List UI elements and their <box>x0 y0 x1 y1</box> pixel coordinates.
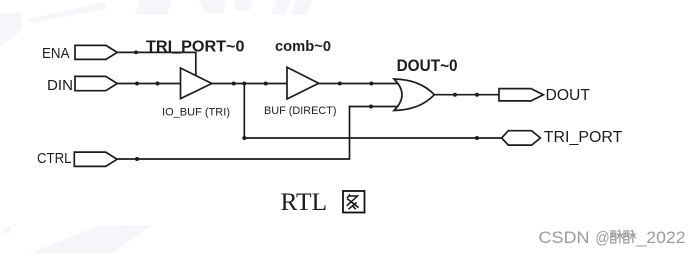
junction dot OR lower input <box>369 105 373 109</box>
input port ENA <box>75 45 117 59</box>
wire BUF output to OR <box>319 83 398 85</box>
svg-text:CSDN: CSDN <box>539 229 590 247</box>
svg-text:TRI_PORT~0: TRI_PORT~0 <box>146 39 245 56</box>
junction dot IO_BUF out 1 <box>232 82 236 86</box>
svg-text:comb~0: comb~0 <box>275 38 331 55</box>
wire IO_BUF output <box>212 83 288 85</box>
caption CJK glyph tu (picture) <box>343 191 365 213</box>
junction dot DIN wire 2 <box>156 82 160 86</box>
watermark band bottom-left <box>30 225 153 253</box>
wire DIN to IO_BUF <box>117 83 181 85</box>
junction dot CTRL wire <box>135 157 139 161</box>
watermark fragment 4 top slashes <box>271 0 291 15</box>
junction dot ENA wire <box>134 51 138 55</box>
buffer BUF triangle <box>287 67 319 99</box>
svg-text:_2022: _2022 <box>635 229 685 247</box>
wire OR lower input <box>350 106 399 108</box>
watermark glyph su 2 <box>623 230 636 243</box>
watermark fragment 1 top <box>135 0 172 15</box>
junction dot IO_BUF out at vertical <box>242 82 246 86</box>
junction dot BUF out 1 <box>338 82 342 86</box>
junction dot OR out 2 <box>475 93 479 97</box>
svg-text:TRI_PORT: TRI_PORT <box>544 129 623 146</box>
wire vertical drop to TRI_PORT net <box>243 84 245 139</box>
wire TRI_PORT net horizontal <box>244 137 501 139</box>
svg-text:CTRL: CTRL <box>37 150 72 167</box>
junction dot BUF out 2 <box>369 82 373 86</box>
input port CTRL <box>74 152 117 166</box>
svg-text:IO_BUF (TRI): IO_BUF (TRI) <box>162 106 230 118</box>
input port DIN <box>75 76 117 90</box>
svg-text:ENA: ENA <box>42 45 70 62</box>
watermark wedge top-left <box>28 2 107 23</box>
wire OR output to DOUT <box>434 94 499 96</box>
or-gate DOUT~0 <box>394 79 434 111</box>
svg-text:DOUT~0: DOUT~0 <box>397 57 458 75</box>
junction dot corner TRI_PORT net <box>242 136 246 140</box>
watermark fragment 2 top <box>199 0 227 13</box>
svg-text:BUF (DIRECT): BUF (DIRECT) <box>264 105 337 117</box>
watermark fragment 3 top <box>233 0 253 10</box>
output port DOUT <box>499 89 543 101</box>
watermark glyph su 1 <box>610 230 623 243</box>
svg-text:DIN: DIN <box>47 77 73 94</box>
svg-text:@: @ <box>595 229 610 247</box>
wire ENA to enable elbow <box>117 52 196 76</box>
svg-text:DOUT: DOUT <box>546 87 591 104</box>
watermark left-edge block <box>0 13 22 47</box>
tri-state buffer IO_BUF triangle <box>181 68 212 99</box>
watermark blip bottom-left <box>2 226 12 233</box>
junction dot DIN wire 1 <box>135 82 139 86</box>
wire CTRL horizontal and riser <box>117 107 349 160</box>
junction dot TRI_PORT net right <box>475 136 479 140</box>
junction dot OR out 1 <box>453 93 457 97</box>
bidir port TRI_PORT hexagon <box>502 131 541 145</box>
svg-text:RTL: RTL <box>281 187 328 216</box>
junction dot IO_BUF out 2 <box>264 82 268 86</box>
